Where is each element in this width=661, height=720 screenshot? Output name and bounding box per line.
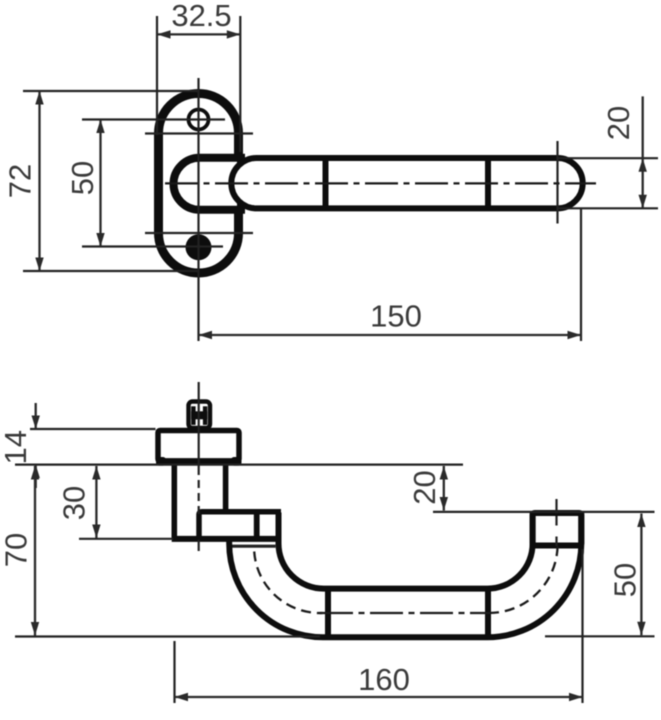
vertical centerline of rosette	[197, 78, 199, 341]
bar dash-dot centerline	[165, 182, 596, 184]
dimension 70 line and arrows	[34, 466, 36, 636]
svg-text:50: 50	[608, 563, 643, 597]
bar joint line 1	[323, 157, 329, 209]
handle bar (stadium)	[231, 158, 582, 208]
svg-text:20: 20	[407, 470, 442, 504]
svg-text:14: 14	[0, 430, 33, 464]
dimension 32.5 extension lines	[156, 16, 158, 135]
extension line collar top (14 dim)	[30, 428, 156, 430]
bar cap tangent mark	[556, 141, 558, 224]
centerline tick below block	[198, 540, 200, 551]
dimension 72 extension lines	[23, 90, 199, 92]
block top and left edge	[199, 512, 281, 537]
long extension line at collar bottom level	[15, 464, 463, 466]
dimension 20 (bottom view) line and arrows	[443, 466, 445, 511]
svg-text:20: 20	[601, 106, 636, 140]
bar joint line 2	[485, 157, 491, 209]
neck left wall	[172, 463, 178, 539]
collar bottom thick edge	[157, 458, 240, 464]
right bend dashed centerline arc	[489, 544, 558, 613]
dimension 20 (bottom view) extension line	[433, 511, 655, 513]
collar (rose, side view)	[158, 431, 239, 462]
dimension 30 line and arrows	[95, 466, 97, 538]
grip joint line 1	[325, 588, 331, 638]
dimension 50 extension line bottom right	[545, 635, 655, 637]
svg-text:30: 30	[57, 486, 92, 520]
spindle	[189, 402, 211, 429]
svg-text:70: 70	[0, 533, 34, 567]
hole centerline bottom (50 ext)	[82, 245, 223, 247]
block bottom edge	[172, 536, 276, 542]
grip dash-dot centerline	[320, 612, 489, 614]
grip joint line 2	[485, 588, 491, 638]
rosette outline (oval plate)	[159, 94, 239, 274]
dimension 72 line and arrows	[38, 91, 40, 271]
dimension 50 line and arrows	[99, 120, 101, 247]
neck right wall	[223, 463, 229, 512]
dimension 30 bottom extension line	[79, 538, 173, 540]
end cap centerline tick	[555, 499, 557, 514]
collar bottom left nub	[156, 457, 166, 466]
centerline above spindle and through collar	[198, 382, 200, 467]
dimension 50 line and arrows	[640, 514, 642, 636]
neck pill	[174, 158, 242, 210]
svg-text:160: 160	[358, 662, 410, 697]
rosette tangent line lower	[145, 232, 253, 234]
block divider	[254, 512, 260, 539]
screw hole bottom (filled)	[186, 234, 212, 260]
grip inner profile	[279, 513, 533, 589]
dimension 20 (top view) extension lines	[557, 157, 658, 159]
collar bottom right nub	[231, 457, 242, 466]
rosette tangent line upper	[145, 132, 253, 134]
screw hole top (open)	[189, 110, 209, 130]
dimension 150 extension line right	[580, 209, 582, 341]
left bend dashed centerline arc	[254, 552, 322, 614]
dimension 150 line and arrows	[199, 334, 582, 336]
dimension 32.5 line and arrows	[157, 33, 240, 35]
block under thin line	[229, 545, 276, 548]
dimension 14 arrow stubs	[35, 403, 37, 429]
dimension 160 extension lines	[173, 641, 175, 703]
dimension 160 line and arrows	[175, 696, 583, 698]
grip outer profile	[229, 513, 581, 637]
svg-text:50: 50	[65, 161, 100, 195]
svg-text:150: 150	[370, 299, 422, 334]
dimension 70 bottom extension line	[15, 635, 320, 637]
dimension 20 (top view) line and arrows	[642, 96, 644, 208]
neck hidden centerline (dashed)	[198, 467, 200, 514]
svg-text:32.5: 32.5	[171, 0, 231, 33]
hole centerline top (50 ext)	[82, 118, 225, 120]
spindle hole H mark	[191, 406, 207, 425]
svg-text:72: 72	[3, 164, 38, 198]
end cap	[533, 513, 582, 546]
